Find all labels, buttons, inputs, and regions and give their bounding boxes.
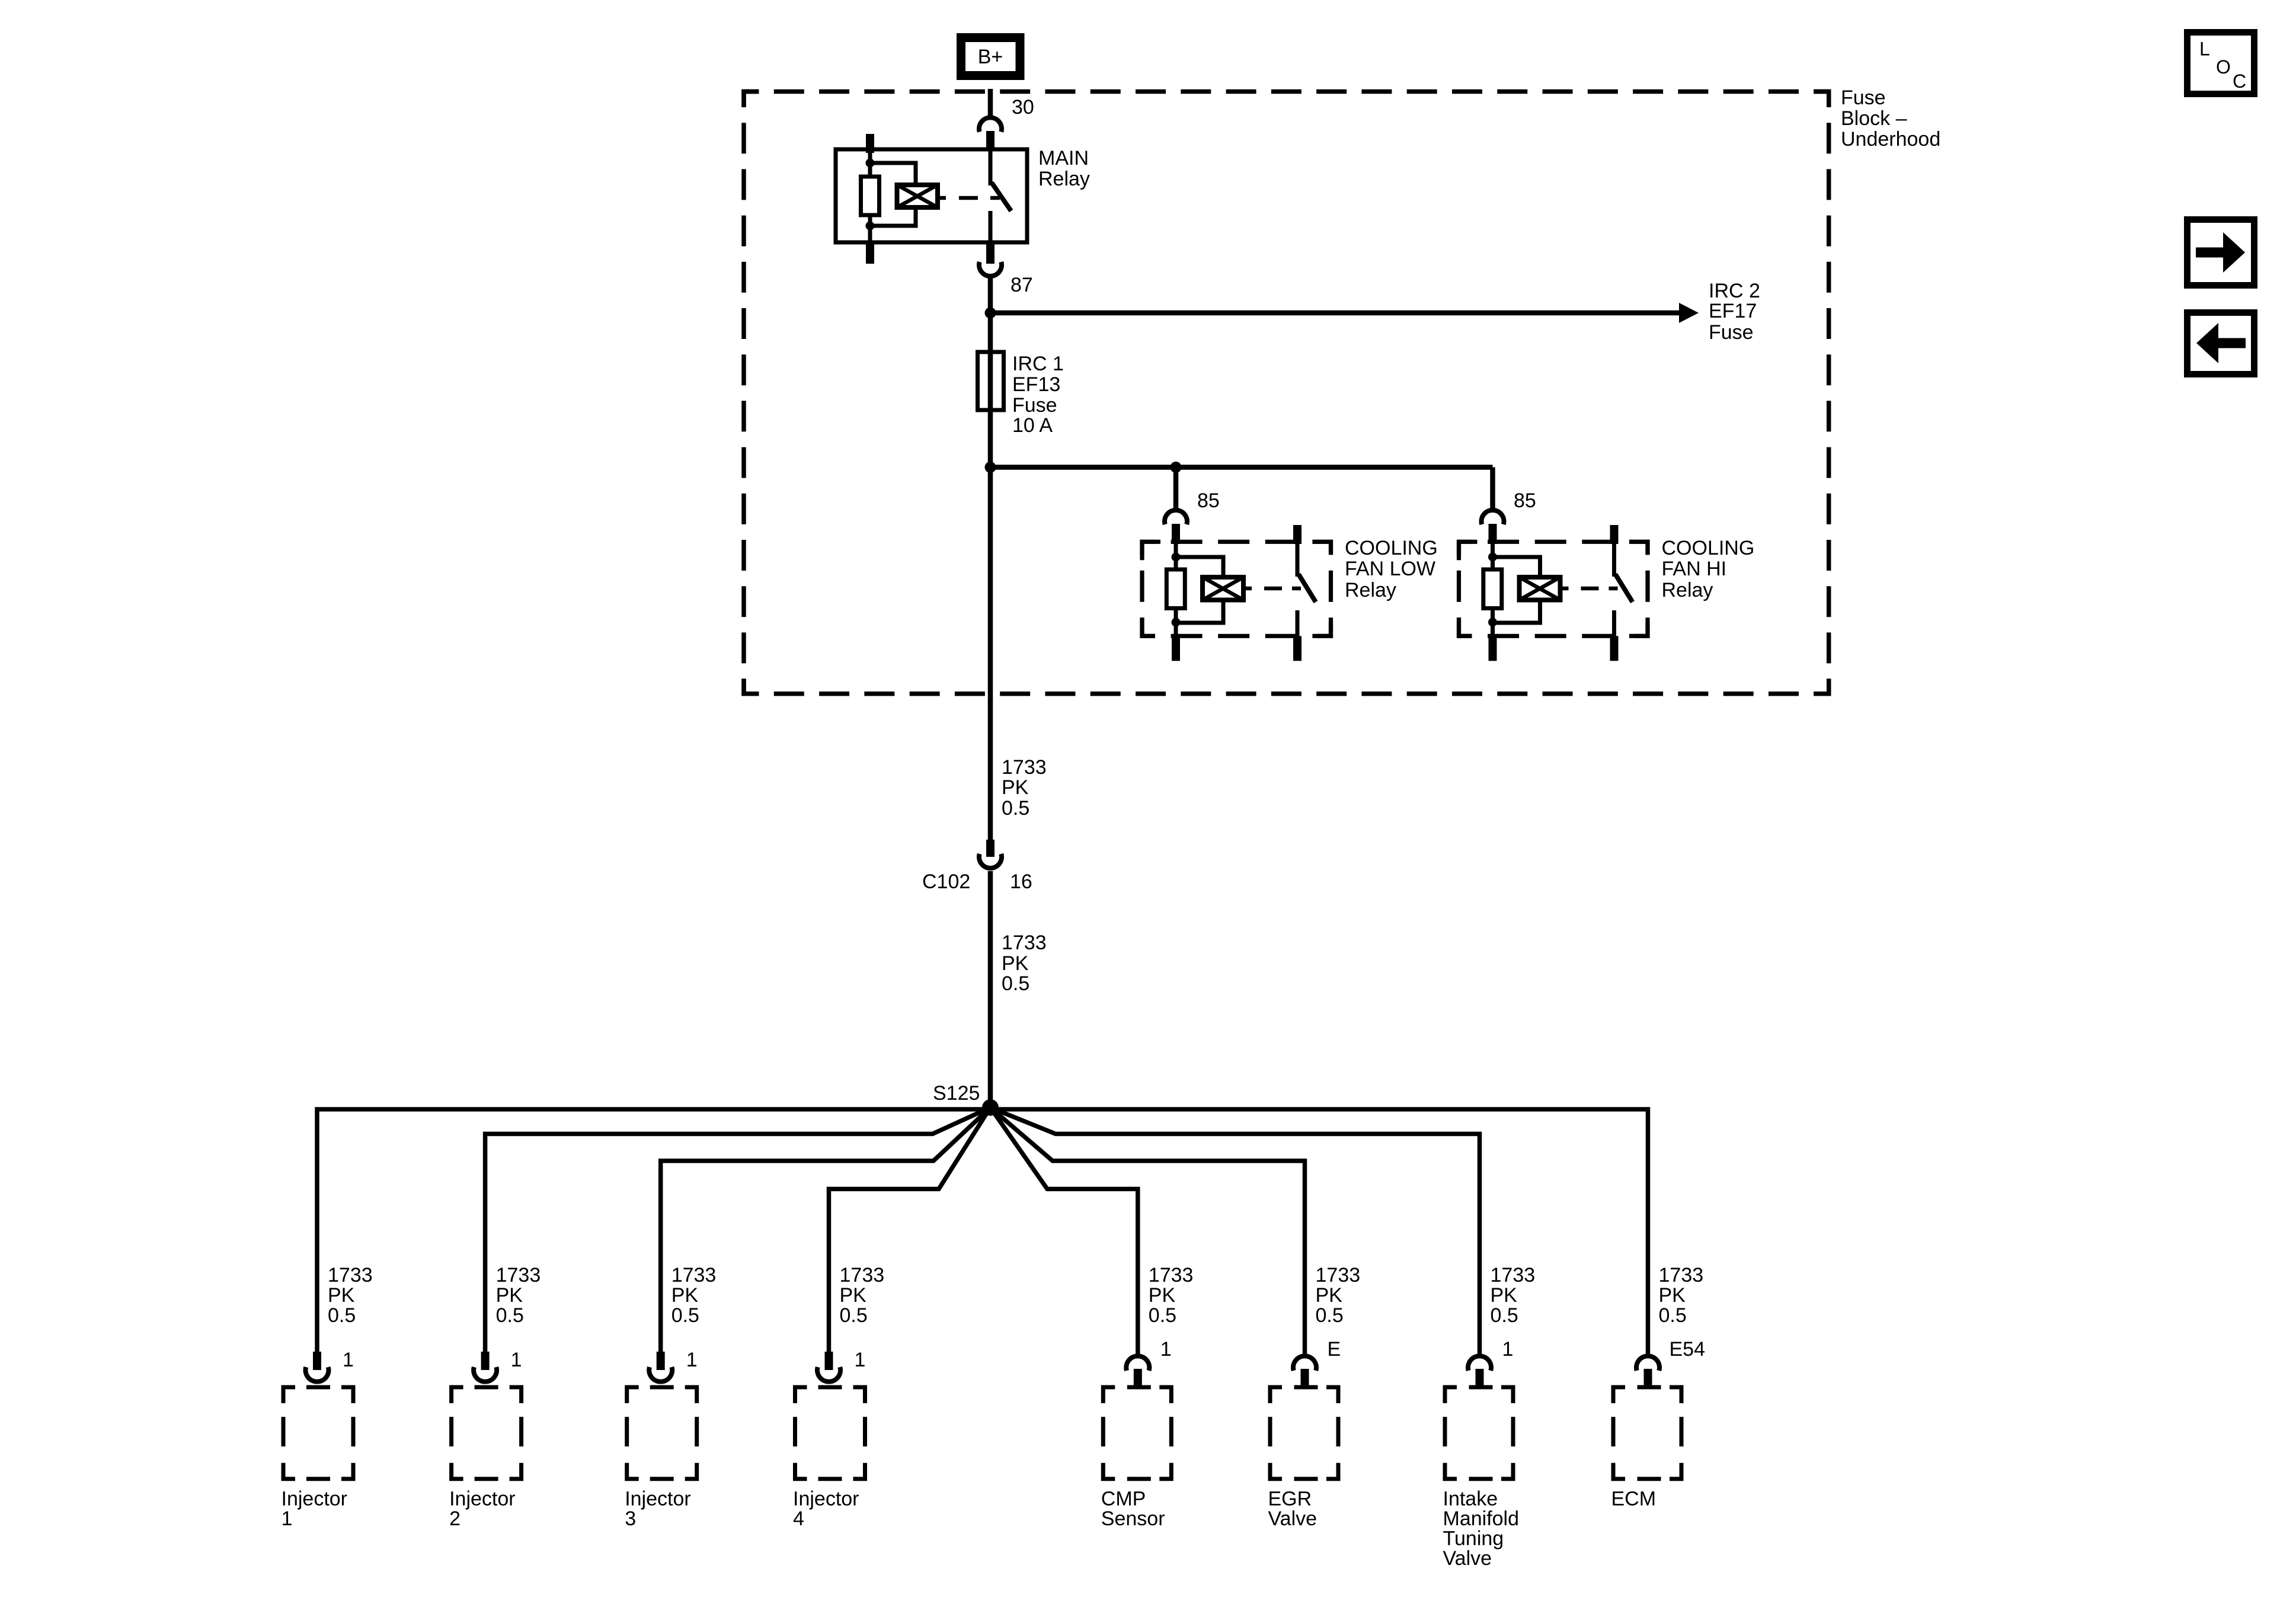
pin 30 stub into MAIN relay — [986, 131, 994, 151]
svg-text:B+: B+ — [978, 46, 1003, 68]
fan low coil loop upper — [1176, 557, 1223, 579]
wire S125 to EGR valve — [990, 1108, 1305, 1356]
intake manifold tuning valve pin stub — [1476, 1369, 1484, 1387]
svg-text:0.5: 0.5 — [1316, 1304, 1344, 1327]
fan hi relay dashed box bottom — [1459, 617, 1648, 636]
svg-text:FAN LOW: FAN LOW — [1345, 558, 1435, 580]
svg-text:E54: E54 — [1670, 1338, 1706, 1361]
svg-text:Manifold: Manifold — [1443, 1507, 1520, 1530]
fan hi relay dashed box right — [1629, 542, 1648, 636]
svg-text:CMP: CMP — [1101, 1488, 1146, 1510]
fan hi relay dashed box left — [1459, 542, 1478, 636]
fan low switch bottom stub — [1293, 636, 1302, 661]
injector 1 dashed component box — [282, 1385, 356, 1481]
fan hi coil right tick — [1560, 587, 1569, 591]
bus wire to cooling fan relays — [990, 465, 1493, 470]
connector 87 arc — [979, 262, 1002, 276]
injector 3 dashed component box — [625, 1385, 699, 1481]
fan low fixed contact wire — [1296, 610, 1300, 636]
svg-text:1733: 1733 — [1659, 1264, 1704, 1286]
forward arrow — [2196, 248, 2224, 258]
Fuse Block - Underhood dashed box top edge — [744, 92, 1829, 107]
svg-text:PK: PK — [1149, 1284, 1176, 1307]
forward arrow box — [2188, 220, 2255, 286]
svg-text:0.5: 0.5 — [496, 1304, 524, 1327]
svg-text:1: 1 — [511, 1349, 522, 1371]
Fuse Block - Underhood dashed box left edge — [744, 92, 759, 694]
connector 30 arc — [979, 117, 1002, 132]
svg-text:1733: 1733 — [496, 1264, 541, 1286]
svg-text:PK: PK — [1659, 1284, 1686, 1307]
svg-text:PK: PK — [1316, 1284, 1343, 1307]
fan low relay dashed box bottom — [1142, 617, 1331, 636]
wire S125 to injector 2 — [485, 1108, 990, 1353]
MAIN relay box — [836, 149, 1027, 242]
svg-text:1: 1 — [343, 1349, 354, 1371]
svg-text:FAN HI: FAN HI — [1662, 558, 1727, 580]
fan low coil crossed box — [1203, 577, 1243, 600]
main wire from fuse junction down to C102 — [988, 468, 993, 841]
svg-text:1: 1 — [855, 1349, 866, 1371]
splice S125 — [982, 1099, 999, 1116]
svg-text:EF17: EF17 — [1709, 300, 1757, 322]
wire 87 down through IRC1 fuse to lower junction — [988, 279, 993, 468]
svg-text:1733: 1733 — [671, 1264, 717, 1286]
svg-text:1: 1 — [282, 1507, 293, 1530]
svg-text:Valve: Valve — [1443, 1547, 1492, 1570]
fan hi coil wire — [1491, 544, 1495, 571]
CMP sensor dashed component box — [1101, 1385, 1173, 1481]
fan low resistor — [1166, 569, 1185, 609]
svg-text:EGR: EGR — [1268, 1488, 1312, 1510]
svg-text:COOLING: COOLING — [1662, 537, 1755, 559]
svg-text:EF13: EF13 — [1012, 373, 1060, 396]
junction node below fuse — [985, 462, 996, 473]
svg-text:Relay: Relay — [1662, 579, 1713, 601]
svg-text:0.5: 0.5 — [671, 1304, 699, 1327]
wire S125 to injector 3 — [661, 1108, 990, 1353]
fan hi switch top stub — [1610, 525, 1619, 544]
svg-text:MAIN: MAIN — [1038, 147, 1089, 169]
ECM connector arc — [1636, 1356, 1659, 1371]
EGR valve dashed component box — [1268, 1385, 1341, 1481]
svg-text:Injector: Injector — [449, 1488, 516, 1510]
fan hi fixed contact wire — [1612, 610, 1616, 636]
fan hi actuator dash — [1581, 587, 1599, 591]
fan hi resistor — [1483, 569, 1502, 609]
fan hi switch blade — [1616, 574, 1633, 602]
svg-text:S125: S125 — [933, 1082, 980, 1105]
C102 pin stub — [986, 840, 994, 857]
svg-text:IRC 1: IRC 1 — [1012, 353, 1064, 375]
CMP sensor pin stub — [1134, 1369, 1142, 1387]
wire to IRC 2 EF17 Fuse — [990, 311, 1680, 316]
wire S125 to injector 1 — [317, 1109, 990, 1353]
fan low coil bottom stub — [1172, 636, 1180, 661]
svg-text:PK: PK — [496, 1284, 523, 1307]
svg-text:Intake: Intake — [1443, 1488, 1498, 1510]
intake manifold tuning valve dashed component box — [1443, 1385, 1515, 1481]
Fuse Block - Underhood dashed box bottom edge — [744, 678, 1829, 694]
LOC reference box — [2188, 33, 2255, 94]
injector 2 dashed component box — [449, 1385, 523, 1481]
fan low wire resistor to lower dot — [1174, 609, 1178, 636]
wire down to fan hi relay — [1490, 468, 1495, 510]
EGR valve connector arc — [1293, 1356, 1316, 1371]
fan low relay dashed box left — [1142, 542, 1160, 636]
svg-text:0.5: 0.5 — [1002, 972, 1029, 995]
svg-text:E: E — [1328, 1338, 1341, 1361]
MAIN relay coil top stub — [866, 134, 874, 153]
fan hi switch pole wire — [1612, 544, 1616, 577]
svg-text:Fuse: Fuse — [1012, 394, 1057, 417]
svg-text:2: 2 — [449, 1507, 461, 1530]
fan hi lower dot — [1488, 618, 1497, 627]
fan low coil loop lower — [1176, 598, 1223, 623]
svg-text:Relay: Relay — [1345, 579, 1396, 601]
MAIN relay coil right tick — [938, 196, 946, 200]
svg-text:0.5: 0.5 — [1149, 1304, 1176, 1327]
svg-text:Relay: Relay — [1038, 168, 1090, 190]
COOLING FAN HI relay: connector 85 arc — [1481, 510, 1504, 524]
wire S125 to CMP sensor — [990, 1108, 1138, 1356]
fan hi coil loop upper — [1493, 557, 1540, 579]
fan hi coil loop lower — [1493, 598, 1540, 623]
svg-text:1733: 1733 — [840, 1264, 885, 1286]
svg-text:Valve: Valve — [1268, 1507, 1318, 1530]
fan low switch pole wire — [1296, 544, 1300, 577]
pin 87 stub — [986, 242, 994, 264]
svg-text:0.5: 0.5 — [1002, 797, 1029, 820]
junction node at 87 branch — [985, 308, 996, 319]
fan low lower dot — [1172, 618, 1181, 627]
fan low actuator dash — [1264, 587, 1282, 591]
svg-text:Fuse: Fuse — [1709, 321, 1754, 344]
svg-text:Injector: Injector — [625, 1488, 691, 1510]
svg-text:1733: 1733 — [1491, 1264, 1536, 1286]
svg-text:Fuse: Fuse — [1841, 87, 1886, 109]
intake manifold tuning valve connector arc — [1468, 1356, 1491, 1371]
CMP sensor connector arc — [1126, 1356, 1149, 1371]
fan low upper dot — [1172, 553, 1181, 562]
svg-text:C: C — [2233, 71, 2246, 92]
wire S125 to ECM — [990, 1109, 1648, 1356]
injector 1 pin stub — [313, 1352, 321, 1370]
fan low pin 85 stub — [1172, 524, 1180, 544]
svg-text:PK: PK — [328, 1284, 355, 1307]
svg-text:87: 87 — [1011, 274, 1033, 296]
MAIN relay pole tick — [990, 196, 1000, 200]
fuse IRC 1 EF13 — [978, 352, 1004, 410]
fan hi wire resistor to lower dot — [1491, 609, 1495, 636]
svg-text:0.5: 0.5 — [1659, 1304, 1687, 1327]
injector 4 pin stub — [825, 1352, 833, 1370]
ECM dashed component box — [1611, 1385, 1684, 1481]
svg-text:Injector: Injector — [282, 1488, 348, 1510]
svg-text:0.5: 0.5 — [328, 1304, 356, 1327]
svg-text:1: 1 — [686, 1349, 698, 1371]
back arrow — [2217, 338, 2246, 348]
fan low relay dashed box top — [1142, 542, 1331, 560]
injector 1 connector arc — [306, 1367, 329, 1382]
svg-text:1733: 1733 — [328, 1264, 373, 1286]
MAIN relay switch blade — [992, 183, 1011, 211]
injector 4 connector arc — [817, 1367, 840, 1382]
MAIN relay wire resistor to lower dot — [868, 215, 872, 242]
injector 4 dashed component box — [793, 1385, 867, 1481]
wire S125 to intake manifold tuning valve — [990, 1108, 1480, 1356]
svg-text:4: 4 — [793, 1507, 804, 1530]
MAIN relay actuator dash — [959, 196, 978, 200]
MAIN relay coil loop upper wire — [870, 163, 916, 187]
svg-text:10 A: 10 A — [1012, 414, 1053, 437]
EGR valve pin stub — [1301, 1369, 1309, 1387]
injector 2 connector arc — [474, 1367, 497, 1382]
wire B+ to connector 30 — [988, 89, 993, 117]
svg-text:Underhood: Underhood — [1841, 128, 1940, 151]
MAIN relay fixed contact wire — [989, 211, 993, 242]
junction node at fan low branch — [1171, 462, 1182, 473]
COOLING FAN LOW relay: connector 85 arc — [1165, 510, 1187, 524]
fan low coil wire — [1174, 544, 1178, 571]
svg-text:PK: PK — [1002, 776, 1029, 799]
svg-text:IRC 2: IRC 2 — [1709, 280, 1760, 302]
fan hi switch bottom stub — [1610, 636, 1619, 661]
MAIN relay junction dot upper — [866, 159, 875, 168]
svg-text:O: O — [2216, 56, 2231, 78]
svg-text:1: 1 — [1502, 1338, 1514, 1361]
fan low pole tick — [1292, 587, 1301, 591]
svg-text:Block –: Block – — [1841, 107, 1907, 130]
svg-text:1733: 1733 — [1149, 1264, 1194, 1286]
injector 3 connector arc — [649, 1367, 672, 1382]
svg-text:30: 30 — [1012, 96, 1034, 119]
MAIN relay coil loop lower wire — [870, 206, 916, 226]
svg-text:ECM: ECM — [1611, 1488, 1657, 1510]
svg-text:Sensor: Sensor — [1101, 1507, 1165, 1530]
svg-text:85: 85 — [1197, 489, 1220, 512]
B+ power symbol box — [961, 38, 1021, 76]
svg-text:PK: PK — [840, 1284, 867, 1307]
svg-text:PK: PK — [671, 1284, 699, 1307]
Fuse Block - Underhood dashed box right edge — [1814, 92, 1829, 694]
wire S125 to injector 4 — [829, 1108, 991, 1353]
fan low switch blade — [1299, 574, 1316, 602]
svg-text:1: 1 — [1160, 1338, 1172, 1361]
svg-text:L: L — [2199, 39, 2210, 60]
svg-text:3: 3 — [625, 1507, 636, 1530]
wire down to fan low relay — [1173, 468, 1179, 510]
fan low coil right tick — [1243, 587, 1252, 591]
MAIN relay resistor — [861, 177, 880, 215]
fan low relay dashed box right — [1313, 542, 1331, 636]
svg-text:PK: PK — [1491, 1284, 1518, 1307]
fan hi coil crossed box — [1520, 577, 1560, 600]
svg-text:85: 85 — [1514, 489, 1536, 512]
svg-text:PK: PK — [1002, 952, 1029, 975]
injector 2 pin stub — [481, 1352, 490, 1370]
svg-text:Tuning: Tuning — [1443, 1528, 1504, 1550]
fan hi relay dashed box top — [1459, 542, 1648, 560]
fan hi coil bottom stub — [1489, 636, 1497, 661]
back arrow box — [2188, 313, 2255, 375]
svg-text:COOLING: COOLING — [1345, 537, 1438, 559]
svg-text:1733: 1733 — [1002, 932, 1047, 954]
svg-text:16: 16 — [1010, 870, 1032, 893]
C102 connector arc — [979, 854, 1002, 868]
fan hi upper dot — [1488, 553, 1497, 562]
svg-text:C102: C102 — [922, 870, 970, 893]
fan low switch top stub — [1293, 525, 1302, 544]
injector 3 pin stub — [657, 1352, 665, 1370]
MAIN relay switch pole wire — [989, 149, 993, 185]
arrowhead to IRC 2 EF17 Fuse — [1679, 303, 1699, 323]
fan hi pin 85 stub — [1489, 524, 1497, 544]
MAIN relay coil (crossed box) — [897, 185, 938, 207]
svg-text:1733: 1733 — [1316, 1264, 1361, 1286]
ECM pin stub — [1644, 1369, 1652, 1387]
svg-text:1733: 1733 — [1002, 756, 1047, 779]
MAIN relay junction dot lower — [866, 222, 875, 231]
fan hi pole tick — [1609, 587, 1618, 591]
svg-text:0.5: 0.5 — [840, 1304, 868, 1327]
svg-text:0.5: 0.5 — [1491, 1304, 1518, 1327]
MAIN relay coil-side wire — [868, 149, 872, 178]
svg-text:Injector: Injector — [793, 1488, 859, 1510]
wire C102 to S125 — [988, 871, 993, 1108]
MAIN relay coil bottom stub — [866, 242, 874, 264]
